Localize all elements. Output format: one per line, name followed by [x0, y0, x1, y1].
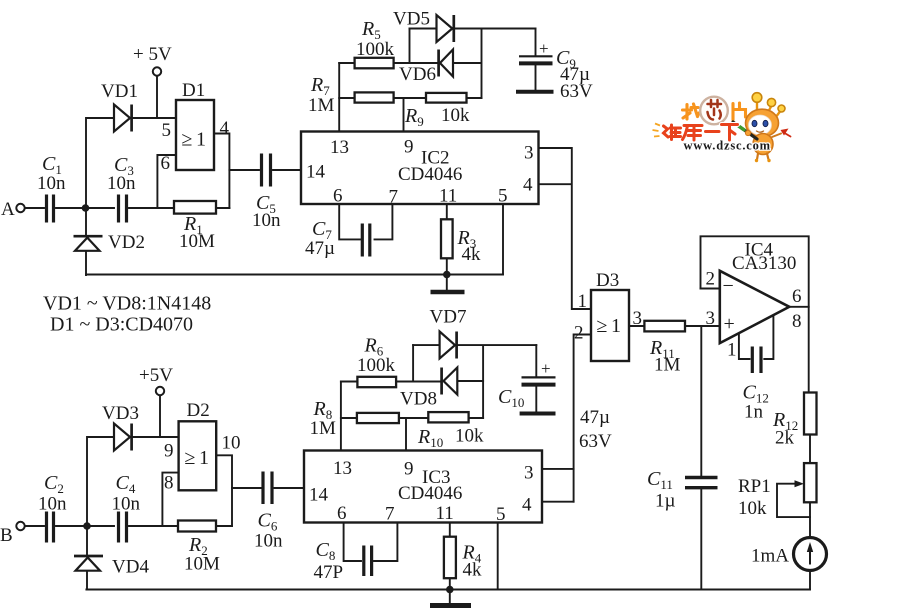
svg-text:D3: D3 [596, 270, 619, 291]
svg-text:VD1: VD1 [101, 81, 138, 102]
svg-text:9: 9 [164, 441, 174, 462]
svg-text:7: 7 [389, 187, 399, 208]
svg-text:1n: 1n [744, 402, 764, 423]
svg-text:10n: 10n [252, 210, 281, 231]
svg-text:VD8: VD8 [400, 389, 437, 410]
svg-text:2: 2 [706, 269, 716, 290]
svg-text:7: 7 [385, 504, 395, 525]
svg-text:10n: 10n [107, 173, 136, 194]
svg-text:6: 6 [333, 186, 343, 207]
svg-text:1M: 1M [654, 355, 681, 376]
svg-text:13: 13 [330, 137, 349, 158]
svg-text:VD7: VD7 [430, 307, 467, 328]
svg-text:6: 6 [792, 286, 802, 307]
svg-text:10M: 10M [184, 554, 220, 575]
svg-text:10n: 10n [37, 173, 66, 194]
svg-text:4: 4 [220, 118, 230, 139]
svg-text:D1: D1 [182, 80, 205, 101]
svg-text:8: 8 [792, 311, 802, 332]
svg-text:13: 13 [333, 458, 352, 479]
svg-text:14: 14 [309, 485, 329, 506]
svg-text:10n: 10n [254, 531, 283, 552]
svg-text:CD4046: CD4046 [398, 164, 462, 185]
svg-text:5: 5 [498, 186, 508, 207]
svg-text:9: 9 [404, 459, 414, 480]
svg-text:4k: 4k [463, 560, 483, 581]
svg-text:10M: 10M [179, 231, 215, 252]
svg-text:63V: 63V [560, 81, 593, 102]
svg-text:4: 4 [523, 175, 533, 196]
svg-text:1mA: 1mA [751, 546, 789, 567]
svg-text:CA3130: CA3130 [732, 253, 796, 274]
svg-text:2k: 2k [775, 428, 795, 449]
svg-text:1M: 1M [308, 95, 335, 116]
svg-text:VD5: VD5 [393, 9, 430, 30]
svg-text:4k: 4k [462, 244, 482, 265]
svg-text:9: 9 [404, 137, 414, 158]
svg-text:47µ: 47µ [580, 407, 610, 428]
svg-text:1M: 1M [310, 418, 337, 439]
svg-text:10k: 10k [738, 498, 767, 519]
svg-text:3: 3 [524, 463, 534, 484]
svg-text:+: + [539, 39, 549, 58]
svg-text:10k: 10k [455, 426, 484, 447]
svg-text:8: 8 [164, 473, 174, 494]
svg-text:−: − [723, 275, 734, 297]
svg-text:100k: 100k [356, 39, 395, 60]
svg-text:B: B [0, 525, 13, 546]
svg-text:3: 3 [706, 308, 716, 329]
svg-text:www.dzsc.com: www.dzsc.com [684, 139, 771, 153]
svg-text:4: 4 [522, 495, 532, 516]
svg-text:D1 ~ D3:CD4070: D1 ~ D3:CD4070 [50, 314, 193, 336]
svg-text:10n: 10n [38, 494, 67, 515]
svg-text:VD2: VD2 [108, 232, 145, 253]
svg-text:VD4: VD4 [112, 557, 149, 578]
svg-text:VD3: VD3 [102, 403, 139, 424]
svg-text:3: 3 [633, 308, 643, 329]
svg-text:100k: 100k [357, 355, 396, 376]
svg-text:10k: 10k [441, 105, 470, 126]
svg-text:RP1: RP1 [738, 476, 771, 497]
svg-text:10: 10 [222, 433, 241, 454]
svg-text:47P: 47P [314, 562, 344, 583]
svg-text:10n: 10n [112, 494, 141, 515]
svg-text:1µ: 1µ [655, 491, 676, 512]
svg-text:11: 11 [439, 186, 457, 207]
svg-text:63V: 63V [579, 431, 612, 452]
svg-text:+5V: +5V [139, 365, 173, 386]
svg-text:+: + [724, 313, 735, 335]
svg-text:VD6: VD6 [399, 64, 436, 85]
svg-text:A: A [1, 199, 15, 220]
svg-text:3: 3 [524, 143, 534, 164]
svg-text:6: 6 [337, 503, 347, 524]
svg-text:1: 1 [578, 291, 588, 312]
svg-text:5: 5 [496, 504, 506, 525]
svg-text:47µ: 47µ [305, 238, 335, 259]
svg-text:CD4046: CD4046 [398, 483, 462, 504]
svg-text:1: 1 [727, 340, 737, 361]
svg-text:+: + [541, 359, 551, 378]
svg-text:D2: D2 [187, 400, 210, 421]
svg-text:VD1 ~ VD8:1N4148: VD1 ~ VD8:1N4148 [43, 293, 211, 315]
svg-text:14: 14 [306, 162, 326, 183]
svg-text:+ 5V: + 5V [133, 44, 172, 65]
svg-text:5: 5 [162, 120, 172, 141]
svg-text:11: 11 [436, 503, 454, 524]
svg-text:2: 2 [574, 323, 584, 344]
svg-text:6: 6 [161, 153, 171, 174]
